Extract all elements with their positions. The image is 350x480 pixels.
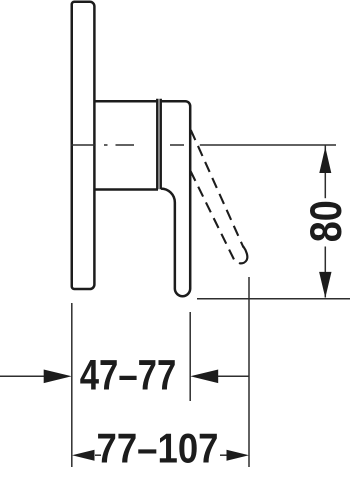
extension line plate-left bbox=[71, 303, 73, 467]
svg-text:47–77: 47–77 bbox=[80, 352, 177, 399]
wall plate (escutcheon) bbox=[72, 2, 95, 289]
dimension 77-107 arrow right (pointing right) bbox=[227, 450, 250, 461]
lever dashed alternate position: right edge bbox=[191, 130, 244, 248]
centerline dash segment bbox=[116, 144, 135, 146]
collar line right bbox=[159, 99, 162, 190]
dimension 80 extension line bottom bbox=[197, 298, 350, 300]
centerline solid through plate bbox=[71, 144, 96, 146]
body bottom line bbox=[94, 188, 158, 191]
extension line handle-right bbox=[189, 312, 191, 401]
dimension 47-77 arrow left (pointing right) bbox=[44, 370, 72, 384]
dimension 77-107 arrow left (pointing left) bbox=[72, 450, 95, 461]
dimension 80 line bbox=[324, 146, 326, 199]
dimension 47-77 leader line right bbox=[218, 375, 249, 377]
svg-text:77–107: 77–107 bbox=[97, 425, 219, 472]
body top line bbox=[94, 100, 158, 103]
dimension 77-107 line stubs bbox=[95, 454, 101, 456]
lever handle solid (hanging down) bbox=[161, 101, 191, 296]
lever dashed alternate position: rounded tip bbox=[240, 247, 248, 264]
centerline dot segment bbox=[104, 144, 108, 146]
lever dashed alternate position: left edge bbox=[191, 171, 235, 260]
dimension 47-77 leader line left bbox=[0, 375, 45, 377]
svg-text:80: 80 bbox=[302, 200, 350, 242]
dimension 47-77 arrow right (pointing left) bbox=[190, 370, 218, 384]
dimension 80 arrow top (pointing up) bbox=[319, 147, 331, 173]
centerline dash segment after collar bbox=[170, 144, 184, 146]
dimension 80 arrow bottom (pointing down) bbox=[319, 272, 331, 298]
collar line left bbox=[156, 99, 159, 190]
centerline solid extension to 80-dimension bbox=[200, 144, 336, 146]
extension line dashed-lever-tip bbox=[248, 277, 250, 467]
